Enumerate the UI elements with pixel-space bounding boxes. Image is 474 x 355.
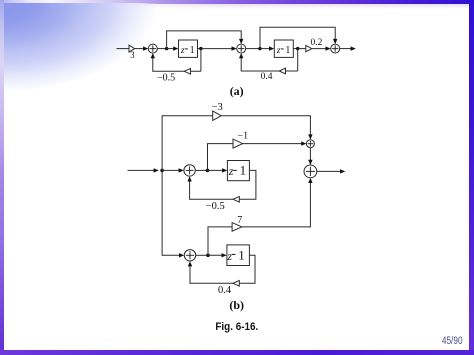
label (b) — [229, 298, 244, 312]
wire: feedback Z3 out right-down-left to B1 — [187, 170, 256, 199]
wire: output of (b) — [317, 169, 346, 173]
node n3 — [258, 47, 261, 50]
wire: n3 to delay Z2 — [260, 46, 274, 50]
wire: feedback n2 down-left to A1 — [151, 49, 201, 72]
gain triangle 0.2 — [306, 45, 312, 51]
node m2 — [206, 169, 210, 173]
value label 3 — [130, 50, 135, 60]
delay block Z4 (z^-1) — [226, 245, 249, 266]
wire: m3 to delay Z4 — [208, 253, 227, 257]
label (a) — [230, 84, 244, 98]
gain triangle 3 — [129, 45, 135, 52]
wire: Z1 to node n2 — [198, 48, 201, 50]
gain triangle 0.4 (left pointing) — [279, 68, 285, 74]
svg-text:0.4: 0.4 — [261, 72, 273, 82]
gain triangle 0.4 of (b) (left pointing) — [233, 281, 239, 287]
svg-text:1: 1 — [240, 163, 247, 178]
summer B3 (upper right) — [306, 140, 314, 148]
summer A3 — [331, 44, 340, 53]
wire: B1 to node m2 — [195, 169, 207, 171]
wire: B2 to node m3 — [196, 254, 208, 256]
right border strip — [469, 0, 474, 355]
svg-text:1: 1 — [190, 45, 195, 56]
wire: triangle to summer A1 — [135, 46, 149, 50]
delay block Z1 (z^-1) — [179, 40, 198, 57]
node n4 — [296, 47, 299, 50]
caption Fig. 6-16. — [0, 321, 474, 333]
wire: feedback n4 down-left to A2 — [239, 49, 298, 71]
svg-text:(b): (b) — [229, 298, 244, 312]
wire: output of (a) — [340, 46, 356, 50]
svg-text:z: z — [226, 249, 232, 263]
summer B1 — [184, 165, 195, 176]
page number 45/90 — [435, 335, 463, 347]
node n1 — [165, 47, 168, 50]
value label -1 — [237, 130, 248, 141]
bottom border strip — [0, 350, 474, 355]
value label -0.5 — [157, 73, 175, 84]
value label 0.4 — [261, 72, 273, 82]
wire: m1 to summer B1 — [162, 168, 184, 172]
node n2 — [199, 47, 202, 50]
svg-text:z: z — [228, 164, 234, 178]
wire: branch m1 up through gain -3 to summer B3 top — [162, 116, 313, 171]
wire: n1 to delay Z1 — [167, 46, 179, 50]
value label -3 — [212, 102, 223, 113]
wire: branch m3 up through gain 7 to summer B4 bottom — [208, 178, 313, 256]
svg-text:−0.5: −0.5 — [206, 201, 225, 212]
gain triangle 7 — [232, 223, 242, 232]
wire: branch m2 up through gain -1 to summer B3 — [208, 141, 307, 170]
top-left corner gradient blob — [3, 3, 203, 113]
node m3 — [206, 254, 210, 258]
wire: B3 down to output summer B4 — [308, 148, 312, 165]
svg-text:1: 1 — [238, 248, 245, 263]
wire: A2 to node n3 — [246, 48, 260, 50]
svg-text:−3: −3 — [212, 102, 223, 113]
value label 7 — [237, 215, 242, 226]
top border bar — [0, 0, 474, 4]
value label 0.4 of (b) — [218, 285, 232, 296]
gain triangle -3 — [213, 111, 222, 120]
svg-text:1: 1 — [285, 45, 290, 56]
summer A1 — [148, 44, 157, 53]
wire: feedback Z4 out right-down-left to B2 — [188, 255, 255, 283]
wire: n2 to summer A2 — [201, 46, 237, 50]
wire: feedforward n1 over Z1 into summer A2 — [167, 31, 244, 49]
node m1 (input branch) — [160, 169, 164, 173]
wire: gain 0.2 to summer A3 — [312, 46, 331, 50]
svg-text:7: 7 — [237, 215, 242, 226]
summer A2 — [237, 44, 246, 53]
svg-text:−1: −1 — [237, 130, 248, 141]
wire: input of (a) — [117, 48, 130, 50]
wire: m1 down to summer B2 (bottom section) — [162, 170, 184, 257]
gain triangle -0.5 (left pointing) — [184, 69, 190, 75]
svg-text:−0.5: −0.5 — [157, 73, 175, 84]
gain triangle -0.5 of (b) (left pointing) — [233, 197, 239, 203]
svg-text:3: 3 — [130, 50, 135, 60]
wire: A1 to node n1 — [157, 48, 166, 50]
summer B4 (output) — [304, 165, 317, 178]
delay block Z3 (z^-1) — [227, 161, 249, 181]
svg-text:0.4: 0.4 — [218, 285, 232, 296]
svg-text:z: z — [276, 46, 281, 56]
svg-text:(a): (a) — [230, 84, 244, 98]
wire: input of (b) — [128, 168, 159, 172]
wire: feedforward n3 over Z2 into summer A3 — [260, 27, 337, 48]
value label -0.5 of (b) — [206, 201, 225, 212]
wire: Z2 to node n4 — [293, 48, 297, 50]
gain triangle -1 — [233, 139, 243, 148]
left border strip — [0, 0, 4, 355]
summer B2 — [184, 250, 195, 261]
delay block Z2 (z^-1) — [274, 40, 293, 57]
svg-text:0.2: 0.2 — [310, 38, 322, 48]
svg-text:z: z — [180, 46, 185, 56]
wire: m2 to delay Z3 — [208, 168, 228, 172]
value label 0.2 — [310, 38, 322, 48]
faint fade under top bar — [120, 4, 474, 9]
wire: n4 to gain 0.2 — [298, 48, 306, 50]
